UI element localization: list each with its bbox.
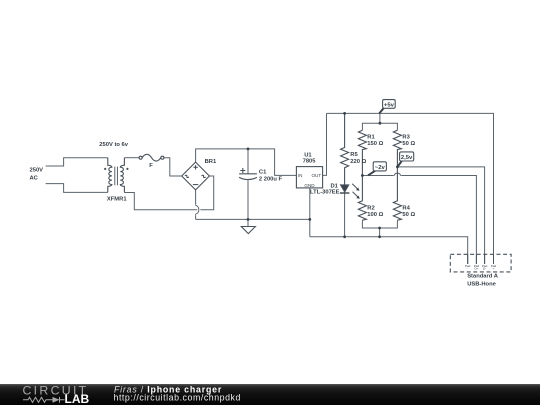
capacitor C1 top plate — [239, 173, 257, 175]
wire primary bottom stub — [46, 184, 108, 193]
junction node divider bus — [379, 122, 382, 125]
wire bridge bottom to ground rail — [195, 190, 197, 206]
junction node R5 top — [343, 112, 346, 115]
transformer polarity dot secondary — [126, 168, 128, 170]
svg-text:7805: 7805 — [303, 158, 317, 164]
USB connector dashed box — [450, 254, 511, 272]
wire secondary top to fuse — [124, 157, 139, 159]
svg-text:LAB: LAB — [65, 392, 90, 405]
transformer XFMR1 primary winding — [108, 158, 112, 193]
svg-text:50 Ω: 50 Ω — [402, 141, 415, 147]
resistor R5 220 — [341, 113, 349, 184]
svg-text:100 Ω: 100 Ω — [367, 212, 383, 218]
svg-text:+: + — [493, 267, 495, 271]
svg-text:OUT: OUT — [311, 173, 321, 178]
svg-text:250V: 250V — [30, 168, 44, 174]
svg-text:C1: C1 — [259, 169, 267, 175]
junction node R2R4 tap bottom — [378, 235, 381, 238]
svg-text:LTL-307EE: LTL-307EE — [310, 190, 340, 196]
wire capacitor top — [247, 149, 249, 174]
svg-text:~2v: ~2v — [375, 165, 386, 171]
net flag 2,5v — [398, 152, 414, 167]
resistor R1 150 — [358, 130, 366, 175]
svg-text:50 Ω: 50 Ω — [402, 212, 415, 218]
svg-text:D+: D+ — [474, 267, 478, 271]
capacitor C1 plus sign — [240, 168, 245, 173]
wire ground rail to ground symbol — [247, 219, 249, 226]
svg-text:BR1: BR1 — [205, 159, 217, 165]
svg-text:220 Ω: 220 Ω — [350, 159, 366, 165]
junction node cap top — [247, 148, 250, 151]
svg-text:R2: R2 — [367, 205, 374, 211]
LED D1 triangle — [341, 185, 349, 192]
wire fuse to bridge left — [164, 158, 182, 176]
bridge terminal marks — [185, 165, 206, 185]
transformer polarity dot primary — [104, 168, 106, 170]
resistor R2 100 — [358, 176, 366, 221]
wire primary top stub — [46, 158, 108, 166]
svg-text:http://circuitlab.com/chnpdkd: http://circuitlab.com/chnpdkd — [114, 392, 241, 402]
wire center tap to lower rail — [379, 228, 381, 237]
wire R2 R4 bottoms joined — [362, 220, 397, 228]
bridge BR1 plus terminal mark — [193, 165, 197, 169]
svg-text:-: - — [467, 267, 468, 271]
junction node R2R4 tap top — [378, 227, 381, 230]
wire hop at R3R4 crossing — [394, 173, 400, 175]
svg-text:AC: AC — [30, 175, 39, 181]
resistor R3 50 — [393, 130, 401, 167]
wire GND pin down — [309, 188, 311, 237]
transformer core lines — [115, 167, 118, 186]
wire node 2,5v to USB pin3 — [397, 167, 484, 264]
svg-text:R5: R5 — [350, 152, 358, 158]
USB pin leads — [468, 254, 494, 264]
junction node ~2v — [361, 174, 364, 177]
bridge BR1 ac terminal mark right — [202, 175, 206, 179]
svg-text:2 200u F: 2 200u F — [259, 176, 283, 182]
junction node cap bottom — [247, 218, 250, 221]
capacitor C1 bottom curved plate — [239, 177, 257, 179]
wire secondary bottom to bridge right (with hop) — [124, 176, 213, 210]
ground symbol — [241, 227, 255, 234]
svg-text:Standard A: Standard A — [467, 273, 499, 279]
wire divider bus — [362, 123, 397, 130]
svg-text:R3: R3 — [402, 134, 410, 140]
net flag ~2v — [368, 162, 386, 176]
svg-text:150 Ω: 150 Ω — [367, 141, 383, 147]
junction node D1 bottom — [343, 235, 346, 238]
wire bridge top to regulator IN — [196, 149, 297, 176]
wire D1 cathode to lower rail — [344, 193, 346, 237]
svg-text:GND: GND — [304, 183, 315, 188]
svg-text:D-: D- — [483, 267, 486, 271]
svg-text:F: F — [149, 163, 153, 169]
logo resistor diode glyph — [23, 397, 65, 403]
resistor R4 50 — [393, 167, 401, 220]
wire ground rail — [196, 218, 310, 220]
junction node 2,5v — [396, 166, 399, 169]
svg-text:2,5v: 2,5v — [401, 155, 413, 161]
svg-text:IN: IN — [298, 173, 303, 178]
fuse F — [139, 156, 142, 159]
wire OUT to +5v rail — [323, 113, 327, 175]
wire hop at bridge bottom crossing — [196, 205, 199, 214]
wire +5v feed to divider bus — [379, 113, 381, 123]
svg-text:250V to 6v: 250V to 6v — [99, 142, 128, 148]
svg-text:R1: R1 — [367, 134, 375, 140]
net flag +5v — [379, 100, 395, 114]
bridge BR1 minus terminal mark — [193, 184, 198, 186]
svg-text:+5v: +5v — [384, 102, 395, 108]
svg-text:XFMR1: XFMR1 — [107, 197, 127, 203]
transformer secondary winding — [120, 158, 124, 193]
svg-text:R4: R4 — [402, 205, 410, 211]
junction node U1 gnd — [308, 218, 311, 221]
svg-text:D1: D1 — [331, 183, 339, 189]
wire node ~2v to USB pin2 (with hop) — [362, 176, 476, 265]
wire lower ground rail to USB pin1 — [310, 237, 468, 264]
LED D1 emission arrows — [352, 184, 358, 197]
bridge BR1 ac terminal mark left — [185, 175, 189, 179]
LED D1 cathode bar — [340, 192, 350, 194]
regulator U1 7805 box — [296, 167, 322, 188]
bridge rectifier BR1 — [182, 162, 210, 190]
svg-text:USB-Hone: USB-Hone — [467, 282, 496, 288]
wire capacitor bottom to ground rail — [247, 180, 249, 219]
footer bar — [0, 384, 540, 405]
wire +5v rail to USB pin4 — [327, 113, 494, 264]
